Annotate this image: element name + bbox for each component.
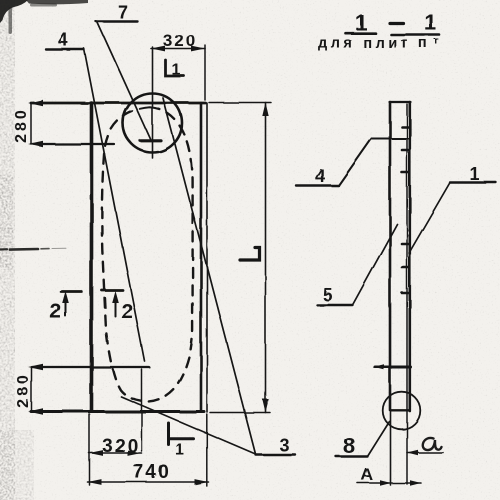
dim 320 bottom left extension	[89, 414, 91, 485]
svg-text:2: 2	[121, 300, 133, 323]
side bar left extension down	[390, 410, 392, 485]
dim A arrows	[380, 480, 391, 486]
side bar right line	[408, 102, 411, 411]
740 arrows	[88, 479, 102, 485]
length dim arrows	[262, 103, 268, 117]
side bar top edge	[390, 101, 411, 103]
scanner dirt blob top-left corner	[0, 0, 88, 34]
dim 280 bottom connector	[31, 367, 33, 411]
leader to label 7	[97, 22, 151, 140]
side bar left line	[389, 102, 392, 410]
plate left thick edge	[90, 103, 94, 411]
mid anchor tick	[375, 366, 411, 369]
leader label 4 right	[339, 139, 409, 186]
top edge extension to length dimension	[209, 102, 271, 104]
svg-text:740: 740	[133, 462, 171, 483]
dim 320 top right extension	[204, 45, 206, 100]
section 2 right arrow	[112, 291, 119, 303]
section mark 1 top	[166, 60, 185, 76]
dim letter a	[422, 437, 441, 449]
leader 3 lower branch (to hidden loop)	[121, 397, 256, 455]
hidden loop outline (dashed oval)	[102, 108, 193, 402]
l symbol on length dimension	[240, 248, 260, 261]
svg-text:3: 3	[279, 435, 289, 455]
bar bottom edge (inside detail circle)	[391, 409, 410, 411]
dim 320 top line	[151, 48, 205, 50]
svg-text:4: 4	[58, 30, 68, 50]
margin scratch line	[0, 248, 66, 249]
section 2 left arrow	[62, 291, 69, 303]
svg-text:320: 320	[102, 436, 140, 457]
label 4 underline	[46, 48, 84, 50]
section mark 1 bottom	[169, 423, 194, 445]
label 7 underline	[96, 20, 138, 22]
arrowheads	[28, 46, 421, 486]
dim a line	[407, 452, 443, 454]
svg-text:1: 1	[424, 10, 436, 35]
svg-text:8: 8	[343, 433, 355, 458]
svg-text:А: А	[361, 465, 373, 484]
dim a arrow	[407, 450, 418, 455]
svg-text:5: 5	[322, 285, 332, 305]
bottom edge extension to length dimension	[210, 412, 270, 414]
section mark 2 left	[61, 290, 82, 293]
320 bottom arrows	[89, 450, 103, 456]
leader 3 upper branch (to loop circle)	[163, 98, 256, 454]
svg-text:320: 320	[163, 31, 197, 50]
320 top arrows	[151, 46, 165, 52]
anchor tick left arrow	[373, 364, 384, 370]
inner top hidden line (y=144)	[31, 143, 114, 145]
leader label 8	[368, 422, 390, 457]
detail circle	[383, 392, 421, 430]
inner bottom hidden line (y=367)	[32, 366, 149, 368]
svg-text:1: 1	[172, 62, 181, 79]
svg-text:280: 280	[13, 107, 30, 143]
title 1-1 underlines	[346, 32, 376, 35]
plate right edge inner	[206, 103, 208, 412]
loop centreline vertical	[152, 47, 154, 158]
svg-text:7: 7	[118, 3, 128, 23]
280 bottom arrows	[28, 364, 43, 370]
plate right edge outer	[200, 103, 203, 411]
plate top edge	[31, 102, 206, 105]
dim 320 bottom right extension	[141, 369, 143, 451]
loop centre dash	[141, 139, 162, 142]
leader label 1 right	[409, 183, 450, 254]
svg-text:для плит пт: для плит пт	[318, 36, 442, 52]
svg-text:4: 4	[315, 166, 325, 186]
280 top arrows	[28, 100, 43, 106]
dim 740 line	[88, 481, 209, 483]
svg-text:1: 1	[355, 10, 367, 35]
weld tick marks	[402, 126, 408, 129]
leader to label 4	[84, 49, 145, 362]
dim 280 top connector	[30, 103, 32, 144]
svg-text:1: 1	[176, 442, 185, 459]
dim 740 right extension	[206, 414, 208, 486]
label 3 underline	[256, 453, 296, 455]
leader label 5	[353, 224, 398, 305]
plate bottom edge	[31, 410, 204, 413]
length dimension line right	[265, 103, 267, 413]
loop circle	[123, 94, 182, 153]
dim 320 bottom line	[89, 452, 142, 454]
section mark 2 right	[102, 289, 123, 292]
svg-text:280: 280	[15, 372, 32, 408]
svg-text:1: 1	[469, 164, 479, 184]
svg-text:2: 2	[50, 300, 62, 323]
side bar inner line / right extension	[406, 104, 408, 484]
dim A line	[358, 482, 422, 484]
